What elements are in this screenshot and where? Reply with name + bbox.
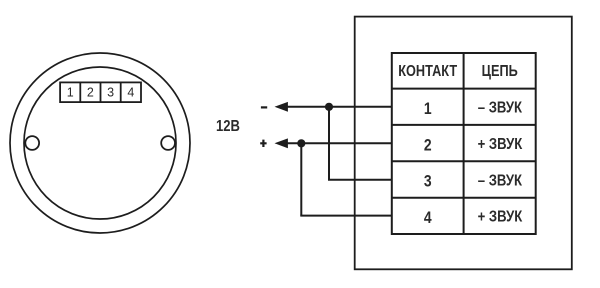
mounting hole left	[25, 136, 39, 150]
svg-text:3: 3	[424, 172, 432, 191]
wire row3 horizontal	[328, 179, 393, 181]
svg-text:+ ЗВУК: + ЗВУК	[478, 209, 523, 226]
svg-text:ЦЕПЬ: ЦЕПЬ	[482, 63, 518, 81]
arrowhead minus wire	[275, 102, 288, 112]
svg-text:3: 3	[107, 85, 114, 99]
svg-text:– ЗВУК: – ЗВУК	[478, 172, 522, 189]
connector X1 outer circle	[10, 53, 190, 233]
junction dot row2	[297, 139, 305, 147]
connector X1 inner circle	[24, 67, 176, 219]
wire vertical row2 to row4	[300, 143, 302, 215]
junction dot row1	[325, 103, 333, 111]
svg-text:– ЗВУК: – ЗВУК	[478, 99, 522, 116]
svg-text:4: 4	[127, 85, 134, 99]
svg-text:КОНТАКТ: КОНТАКТ	[398, 63, 457, 81]
pin table row separator 2-3	[392, 160, 536, 162]
wire row1 to minus arrow	[286, 106, 393, 108]
pin table row separator 3-4	[392, 197, 536, 199]
pin cell separator 3-4	[120, 82, 122, 102]
svg-text:1: 1	[424, 100, 432, 119]
pin table column separator	[463, 53, 465, 234]
wire row2 to plus arrow	[286, 142, 393, 144]
arrowhead plus wire	[275, 138, 288, 148]
wire vertical row1 to row3	[328, 107, 330, 180]
svg-text:+ ЗВУК: + ЗВУК	[478, 136, 523, 153]
pin block outline	[60, 82, 141, 102]
pin table header separator	[392, 88, 536, 90]
svg-text:4: 4	[424, 209, 432, 228]
pin cell separator 2-3	[100, 82, 102, 102]
polarity plus symbol	[260, 140, 266, 147]
pin table outline	[392, 53, 536, 234]
svg-text:12В: 12В	[216, 118, 240, 136]
svg-text:2: 2	[424, 136, 432, 155]
svg-text:2: 2	[87, 85, 94, 99]
polarity minus symbol	[261, 106, 267, 108]
mounting hole right	[161, 136, 175, 150]
device enclosure box	[355, 17, 572, 270]
pin cell separator 1-2	[79, 82, 81, 102]
svg-text:1: 1	[67, 85, 74, 99]
pin table row separator 1-2	[392, 124, 536, 126]
wire row4 horizontal	[300, 215, 392, 217]
